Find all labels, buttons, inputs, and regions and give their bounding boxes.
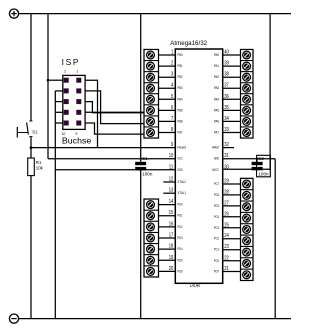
wire pin 20 stub <box>159 270 176 272</box>
wire ISP pin9 route to PB7 <box>85 123 144 134</box>
svg-text:27: 27 <box>224 200 229 206</box>
svg-text:PB1: PB1 <box>177 64 182 68</box>
svg-text:PA0: PA0 <box>214 53 219 57</box>
connector screw terminal block PD (left lower) <box>144 199 159 277</box>
svg-text:GND: GND <box>214 157 219 161</box>
wire pin 6 stub <box>159 109 176 111</box>
wire ISP pin2 to VCC <box>48 79 63 81</box>
svg-text:PB0: PB0 <box>177 53 182 57</box>
svg-text:PC3: PC3 <box>214 226 219 230</box>
svg-text:ISP: ISP <box>62 57 79 67</box>
wire pin 33 stub <box>223 132 241 134</box>
wire pin 36 stub <box>223 98 241 100</box>
capacitor C2 outline box <box>257 155 271 177</box>
wire ISP pin5 route to PB5 <box>85 102 144 113</box>
wire VCC drop to ISP/VDD <box>47 14 49 159</box>
svg-text:2: 2 <box>64 70 66 74</box>
svg-text:PC0: PC0 <box>214 259 219 263</box>
wire C1 to GND rail <box>140 170 142 318</box>
svg-text:1: 1 <box>76 70 78 74</box>
wire ISP pin1 to RESET net <box>85 80 97 147</box>
svg-text:PA7: PA7 <box>214 131 219 135</box>
wire pin 12 stub <box>163 181 175 183</box>
wire ISP pin3 route to PB6 <box>85 91 144 124</box>
wire pin 27 stub <box>223 205 241 207</box>
wire pin 8 stub <box>159 132 176 134</box>
wire pin 32 ARef stub <box>223 147 234 149</box>
svg-text:34: 34 <box>224 116 229 122</box>
svg-text:XTAL1: XTAL1 <box>177 191 186 195</box>
svg-text:PA4: PA4 <box>214 97 219 101</box>
wire ISP pin7 route to terminal <box>85 111 144 113</box>
svg-text:21: 21 <box>224 266 229 272</box>
svg-text:PA3: PA3 <box>214 86 219 90</box>
svg-text:Buchse: Buchse <box>62 137 92 146</box>
node C1-GND junction <box>140 169 142 171</box>
svg-text:PD3: PD3 <box>177 236 182 240</box>
svg-text:AVCC: AVCC <box>212 168 219 172</box>
svg-text:28: 28 <box>224 189 229 195</box>
wire pin 13 stub <box>163 192 175 194</box>
svg-text:12: 12 <box>169 177 174 183</box>
wire ISP GND stub 4 <box>55 122 63 124</box>
svg-text:PD6: PD6 <box>177 269 182 273</box>
wire pin 37 stub <box>223 87 241 89</box>
wire pin 24 stub <box>223 238 241 240</box>
capacitor C1 <box>135 156 153 176</box>
svg-text:36: 36 <box>224 94 229 100</box>
svg-text:Reset: Reset <box>177 146 186 150</box>
wire pin 25 stub <box>223 227 241 229</box>
svg-text:C1: C1 <box>142 156 148 161</box>
svg-text:PB5: PB5 <box>177 108 182 112</box>
svg-text:32: 32 <box>224 142 229 148</box>
svg-text:9: 9 <box>171 142 173 148</box>
svg-text:37: 37 <box>224 83 229 89</box>
wire pin31 GND out <box>223 158 276 160</box>
wire pin 23 stub <box>223 249 241 251</box>
svg-text:PD0: PD0 <box>177 203 182 207</box>
svg-text:PC1: PC1 <box>214 248 219 252</box>
wire pin 5 stub <box>159 98 176 100</box>
wire pin 19 stub <box>159 259 176 261</box>
wire pin 7 stub <box>159 120 176 122</box>
svg-text:18: 18 <box>169 244 174 250</box>
svg-text:100n: 100n <box>142 171 153 176</box>
svg-text:11: 11 <box>169 164 174 170</box>
node RESET junction <box>30 146 33 149</box>
wire pin 29 stub <box>223 183 241 185</box>
svg-text:S1: S1 <box>32 129 38 134</box>
IC U1 Atmega16/32 body <box>175 49 222 283</box>
power terminal + (supply plus) <box>9 9 18 18</box>
svg-text:9: 9 <box>76 132 78 136</box>
svg-text:PA5: PA5 <box>214 108 219 112</box>
svg-text:25: 25 <box>224 222 229 228</box>
svg-text:38: 38 <box>224 72 229 78</box>
svg-text:3: 3 <box>171 72 173 78</box>
svg-text:2: 2 <box>171 61 173 67</box>
wire VCC drop to C1 <box>140 14 142 162</box>
wire pin 40 stub <box>223 54 241 56</box>
svg-text:PC2: PC2 <box>214 237 219 241</box>
wire RESET net to pin 9 <box>31 147 175 149</box>
wire pin 28 stub <box>223 194 241 196</box>
svg-text:VCC: VCC <box>177 157 182 161</box>
svg-text:Atmega16/32: Atmega16/32 <box>170 40 207 47</box>
wire ISP GND stub 3 <box>55 111 63 113</box>
connector ISP pads <box>64 78 82 126</box>
resistor R1 <box>28 158 44 176</box>
connector screw terminal block PA (right upper) <box>241 49 254 138</box>
capacitor C2 <box>252 156 270 176</box>
svg-text:1: 1 <box>171 50 173 56</box>
svg-text:PB6: PB6 <box>177 119 182 123</box>
svg-text:14: 14 <box>169 199 174 205</box>
wire ISP GND stub 2 <box>55 101 63 103</box>
wire GND drop right <box>274 159 276 319</box>
svg-text:35: 35 <box>224 105 229 111</box>
svg-text:PD7: PD7 <box>214 270 219 274</box>
wire ISP GND bus <box>54 91 56 319</box>
svg-text:PD2: PD2 <box>177 225 182 229</box>
connector ISP (10-pin header) <box>63 75 85 129</box>
wire ISP GND stub 1 <box>55 90 63 92</box>
svg-text:ARef: ARef <box>212 146 220 150</box>
wire pin 2 stub <box>159 65 176 67</box>
node C2-GND junction <box>256 158 258 160</box>
svg-text:PC5: PC5 <box>214 204 219 208</box>
wire pin 16 stub <box>159 226 176 228</box>
svg-text:5: 5 <box>171 94 173 100</box>
wire pin 15 stub <box>159 215 176 217</box>
power terminal - (supply minus) <box>9 314 18 323</box>
svg-text:PC6: PC6 <box>214 193 219 197</box>
wire GND to pin 11 <box>55 169 175 171</box>
switch S1 (pushbutton) <box>17 121 38 138</box>
svg-text:10k: 10k <box>36 166 44 171</box>
wire pin 35 stub <box>223 109 241 111</box>
svg-text:40: 40 <box>224 50 229 56</box>
svg-text:10: 10 <box>62 132 66 136</box>
wire pin 26 stub <box>223 216 241 218</box>
svg-text:PA2: PA2 <box>214 75 219 79</box>
svg-text:100n: 100n <box>258 171 269 176</box>
wire VDD to pin 10 <box>48 158 175 160</box>
svg-text:33: 33 <box>224 127 229 133</box>
svg-text:7: 7 <box>171 116 173 122</box>
capacitor C2 outline box <box>257 155 271 177</box>
svg-text:PA6: PA6 <box>214 119 219 123</box>
svg-text:6: 6 <box>171 105 173 111</box>
svg-text:PB7: PB7 <box>177 131 182 135</box>
svg-text:16: 16 <box>169 221 174 227</box>
svg-text:19: 19 <box>169 255 174 261</box>
svg-text:PD1: PD1 <box>177 214 182 218</box>
svg-text:10: 10 <box>169 153 174 159</box>
svg-text:22: 22 <box>224 255 229 261</box>
svg-text:8: 8 <box>171 127 173 133</box>
wire VCC top rail <box>19 13 291 15</box>
wire pin 38 stub <box>223 76 241 78</box>
svg-text:PA1: PA1 <box>214 64 219 68</box>
wire AVCC to VCC drop <box>223 168 270 170</box>
svg-text:PD5: PD5 <box>177 258 182 262</box>
wire C2 top lead <box>256 159 258 162</box>
node C1-VDD junction <box>140 158 142 160</box>
wire pin 39 stub <box>223 65 241 67</box>
svg-text:26: 26 <box>224 211 229 217</box>
svg-text:XTAL2: XTAL2 <box>177 180 186 184</box>
wire switch to node RESET <box>30 137 32 148</box>
svg-text:PC4: PC4 <box>214 215 219 219</box>
wire pin 22 stub <box>223 260 241 262</box>
svg-text:PB3: PB3 <box>177 86 182 90</box>
svg-text:29: 29 <box>224 179 229 185</box>
wire pin 34 stub <box>223 120 241 122</box>
svg-text:39: 39 <box>224 61 229 67</box>
wire pin 1 stub <box>159 54 176 56</box>
svg-text:C2: C2 <box>258 156 264 161</box>
svg-text:DIL40: DIL40 <box>190 283 200 289</box>
node VCC-ISP junction <box>47 79 50 82</box>
svg-text:GND: GND <box>177 168 182 172</box>
svg-text:R1: R1 <box>36 160 42 165</box>
wire pin 18 stub <box>159 248 176 250</box>
svg-text:PD4: PD4 <box>177 247 182 251</box>
svg-text:PB2: PB2 <box>177 75 182 79</box>
svg-text:13: 13 <box>169 188 174 194</box>
svg-text:24: 24 <box>224 233 229 239</box>
svg-text:20: 20 <box>169 266 174 272</box>
svg-text:15: 15 <box>169 210 174 216</box>
connector screw terminal block PB (left upper) <box>144 49 159 138</box>
wire pin 14 stub <box>159 204 176 206</box>
svg-text:PC7: PC7 <box>214 182 219 186</box>
wire R1 to GND rail <box>30 176 32 319</box>
wire VCC to switch S1 <box>30 14 32 121</box>
wire GND bottom rail <box>19 318 291 320</box>
wire pin 4 stub <box>159 87 176 89</box>
svg-text:23: 23 <box>224 244 229 250</box>
wire pin 21 stub <box>223 271 241 273</box>
svg-text:PB4: PB4 <box>177 97 182 101</box>
wire VCC drop right <box>269 14 271 170</box>
wire pin 3 stub <box>159 76 176 78</box>
wire pin 17 stub <box>159 237 176 239</box>
svg-text:17: 17 <box>169 233 174 239</box>
connector screw terminal block PC (right lower) <box>241 178 254 280</box>
wire node to resistor R1 <box>30 148 32 158</box>
